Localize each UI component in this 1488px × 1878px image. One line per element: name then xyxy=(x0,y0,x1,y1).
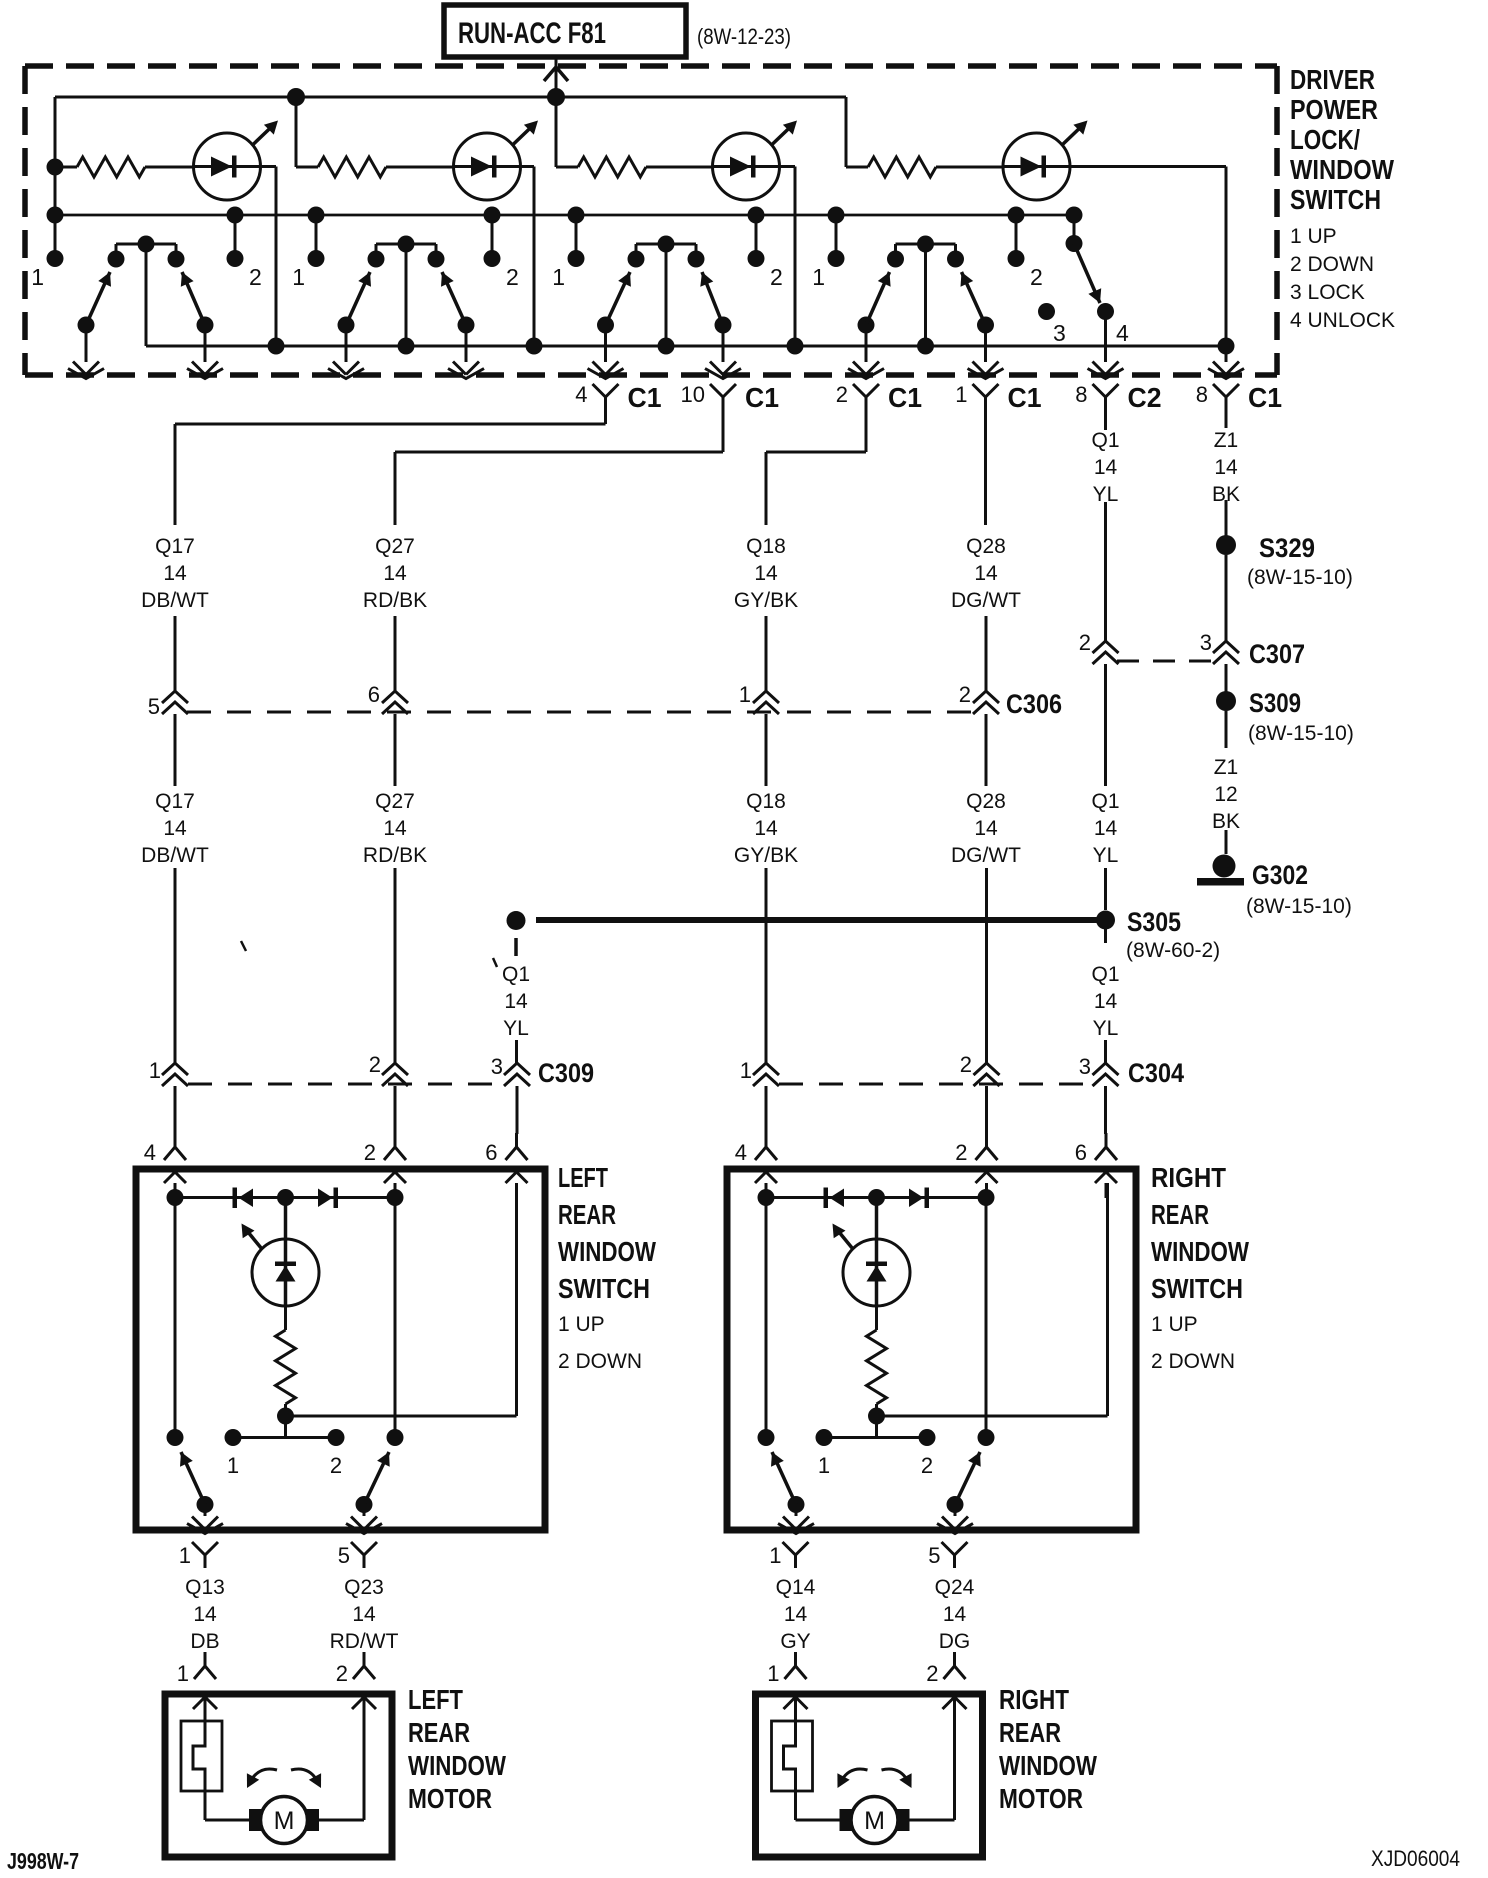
entry arrow pin 2 xyxy=(943,1697,967,1709)
wire section 2 right output xyxy=(448,325,484,379)
svg-text:5: 5 xyxy=(928,1543,940,1568)
wire S329 to C307 xyxy=(1225,555,1228,641)
svg-text:C304: C304 xyxy=(1128,1058,1184,1088)
wire connector C1-4 to Q17 drop xyxy=(175,411,606,525)
label wire Q1 14 YL (S305 left branch) xyxy=(502,963,530,1040)
contact 2 (DOWN) section 4 xyxy=(1008,207,1043,291)
wire section 3 bridge to common rail xyxy=(665,244,668,346)
connector left rear switch pin 1 (below box) xyxy=(179,1542,218,1568)
svg-text:2: 2 xyxy=(836,382,848,407)
wire section 3 left output xyxy=(588,325,624,379)
connector C309 pin 2 xyxy=(369,1052,408,1086)
svg-text:10: 10 xyxy=(681,382,705,407)
label wire Q24 xyxy=(935,1576,975,1653)
svg-text:14: 14 xyxy=(974,562,998,585)
svg-text:2: 2 xyxy=(369,1052,381,1077)
wire Q18 between label and C306 xyxy=(765,616,768,691)
LED DS4 switch illumination xyxy=(1003,121,1088,201)
wire S309 to Z1 12 BK label xyxy=(1225,711,1228,748)
svg-text:MOTOR: MOTOR xyxy=(999,1783,1083,1814)
svg-text:LEFT: LEFT xyxy=(408,1684,463,1715)
node fuse feed / power rail junction xyxy=(547,88,565,106)
svg-text:14: 14 xyxy=(163,817,187,840)
wire into left rear window switch pin 4 xyxy=(174,1086,177,1134)
driver power lock/window switch enclosure (dashed) xyxy=(25,66,1277,375)
svg-text:2: 2 xyxy=(364,1140,376,1165)
LED DS2 switch illumination xyxy=(454,121,539,201)
wire section 3 right output xyxy=(705,325,741,379)
diode D1 (left, cathode bar left) xyxy=(824,1188,845,1209)
wire Z1 output through border xyxy=(1208,346,1244,379)
connector left rear switch pin 5 (below box) xyxy=(338,1542,377,1568)
wire diode rail to LED xyxy=(284,1198,288,1240)
wire arm right output xyxy=(346,1505,382,1534)
svg-text:8: 8 xyxy=(1196,382,1208,407)
svg-text:REAR: REAR xyxy=(558,1199,616,1230)
wire breaker to motor xyxy=(796,1819,851,1822)
svg-text:SWITCH: SWITCH xyxy=(1151,1273,1243,1304)
svg-text:Z1: Z1 xyxy=(1214,429,1239,452)
svg-text:LOCK/: LOCK/ xyxy=(1290,124,1360,155)
lock switch pivot stub xyxy=(1066,207,1083,253)
svg-text:12: 12 xyxy=(1214,783,1237,806)
connector right rear switch pin 5 (below box) xyxy=(928,1542,967,1568)
connector C304 pin 3 xyxy=(1079,1054,1119,1086)
wire resistor R1 to LED xyxy=(145,166,194,169)
contact 2 (DOWN) section 1 xyxy=(227,207,262,291)
wire lock switch output xyxy=(1088,312,1124,379)
switch arm left section 3 xyxy=(597,272,631,334)
node section 2 bridge / common rail xyxy=(398,338,415,355)
svg-text:C1: C1 xyxy=(628,382,662,413)
svg-text:(8W-15-10): (8W-15-10) xyxy=(1246,895,1352,918)
svg-text:YL: YL xyxy=(503,1017,529,1040)
connector C307 mating line (dashed) xyxy=(1117,660,1214,663)
svg-text:1: 1 xyxy=(227,1453,239,1478)
label connector C304 xyxy=(1128,1058,1184,1088)
node LED DS2 return junction xyxy=(526,338,543,355)
svg-text:14: 14 xyxy=(504,990,528,1013)
switch arm left section 4 xyxy=(858,272,891,334)
svg-text:C307: C307 xyxy=(1249,639,1305,669)
wire diode rail xyxy=(167,1189,404,1206)
svg-text:C306: C306 xyxy=(1006,689,1062,719)
wire resistor R2 to LED xyxy=(386,166,454,169)
left rear window motor enclosure xyxy=(165,1694,392,1857)
entry arrow pin 1 xyxy=(784,1697,808,1709)
contact 3 (LOCK) xyxy=(1038,303,1066,346)
wire Q28 below C306 xyxy=(985,714,988,786)
svg-text:6: 6 xyxy=(1075,1140,1087,1165)
wire C307 to splice S309 xyxy=(1225,664,1228,692)
wire resistor to tie point xyxy=(868,1404,885,1425)
wire LED DS3 return to common rail xyxy=(780,167,796,347)
wire section 1 left output xyxy=(68,325,104,379)
label wire Q1 14 YL (S305 right branch) xyxy=(1091,963,1119,1040)
fuse box RUN-ACC F81 xyxy=(444,5,686,57)
diode D1 (left, cathode bar left) xyxy=(233,1188,254,1209)
wire pin 2 drop to contact xyxy=(978,1198,995,1446)
driver switch position legend xyxy=(1290,225,1395,332)
svg-text:14: 14 xyxy=(754,562,778,585)
svg-text:1: 1 xyxy=(177,1661,189,1686)
svg-text:MOTOR: MOTOR xyxy=(408,1783,492,1814)
svg-text:DB/WT: DB/WT xyxy=(141,589,209,612)
wire into left rear window switch pin 6 xyxy=(516,1086,519,1134)
svg-text:Q1: Q1 xyxy=(1091,963,1119,986)
label wire Q18 14 GY/BK (upper) xyxy=(734,535,798,612)
svg-text:Q1: Q1 xyxy=(1091,790,1119,813)
svg-text:2: 2 xyxy=(960,1052,972,1077)
svg-text:Q24: Q24 xyxy=(935,1576,975,1599)
svg-text:14: 14 xyxy=(352,1603,376,1626)
wire LED to resistor xyxy=(284,1306,287,1330)
svg-text:(8W-12-23): (8W-12-23) xyxy=(697,24,791,49)
switch arm right xyxy=(356,1452,390,1513)
svg-text:1: 1 xyxy=(179,1543,191,1568)
svg-text:4: 4 xyxy=(144,1140,156,1165)
wire S305 left branch stub xyxy=(514,938,518,956)
svg-text:DG/WT: DG/WT xyxy=(951,589,1021,612)
svg-text:1: 1 xyxy=(767,1661,779,1686)
splice S305 with heavy bus xyxy=(507,907,1221,962)
svg-text:4: 4 xyxy=(735,1140,747,1165)
wire common return rail (bottom) xyxy=(146,345,1226,348)
svg-text:DG: DG xyxy=(939,1630,971,1653)
ground G302 xyxy=(1197,855,1352,919)
contact 1 (UP) section 3 xyxy=(552,207,584,291)
resistor R4 (illumination) xyxy=(868,157,936,177)
svg-text:2: 2 xyxy=(1079,630,1091,655)
wire pin 4 drop to contact xyxy=(758,1198,775,1446)
svg-text:2: 2 xyxy=(330,1453,342,1478)
svg-text:1: 1 xyxy=(955,382,967,407)
connector C309 pin 1 xyxy=(149,1058,188,1086)
connector left rear switch pin 6 xyxy=(485,1133,527,1198)
LED switch illumination xyxy=(833,1224,911,1307)
connector right rear motor pin 2 xyxy=(926,1652,965,1686)
svg-text:SWITCH: SWITCH xyxy=(558,1273,650,1304)
svg-text:Q23: Q23 xyxy=(344,1576,384,1599)
wire Q18 below C306 xyxy=(765,714,768,786)
wire Q1 left branch to C309 xyxy=(515,1040,518,1063)
bridge bar contacts 1-2 xyxy=(225,1429,345,1478)
right rear window motor enclosure xyxy=(756,1694,983,1857)
svg-text:1: 1 xyxy=(292,264,305,290)
svg-text:Q28: Q28 xyxy=(966,790,1006,813)
wire section 1 right output xyxy=(187,325,223,379)
wire section 2 feed drop xyxy=(296,97,318,167)
label connector C307 xyxy=(1249,639,1305,669)
svg-text:WINDOW: WINDOW xyxy=(999,1750,1097,1781)
svg-text:RD/BK: RD/BK xyxy=(363,844,427,867)
svg-text:DB/WT: DB/WT xyxy=(141,844,209,867)
svg-text:5: 5 xyxy=(148,694,160,719)
wire motor to pin 2 xyxy=(899,1694,955,1820)
svg-text:RD/BK: RD/BK xyxy=(363,589,427,612)
lock switch arm (to 4 UNLOCK) xyxy=(1074,244,1101,304)
svg-text:(8W-15-10): (8W-15-10) xyxy=(1248,722,1354,745)
svg-text:C1: C1 xyxy=(888,382,922,413)
svg-text:RIGHT: RIGHT xyxy=(1151,1162,1226,1193)
wire connector C1-10 to Q27 drop xyxy=(395,411,723,525)
wire section 4 feed drop xyxy=(846,97,868,167)
motor M xyxy=(249,1797,319,1844)
svg-text:GY/BK: GY/BK xyxy=(734,589,798,612)
wire tie point to bridge bar xyxy=(875,1416,878,1438)
svg-text:6: 6 xyxy=(485,1140,497,1165)
wire tie point to pin 6 drop xyxy=(877,1183,1108,1416)
circuit breaker xyxy=(772,1694,813,1820)
footnote XJD06004 xyxy=(1371,1846,1460,1871)
wire pin 2 drop to contact xyxy=(387,1198,404,1446)
wire section 3 feed drop xyxy=(556,97,578,167)
svg-text:1 UP: 1 UP xyxy=(558,1313,605,1336)
resistor R1 (illumination) xyxy=(77,157,145,177)
svg-text:1: 1 xyxy=(818,1453,830,1478)
wire S305 right branch stub xyxy=(1104,929,1107,943)
svg-text:14: 14 xyxy=(943,1603,967,1626)
wire power rail (top) xyxy=(55,96,846,99)
LED switch illumination xyxy=(242,1224,320,1307)
wire resistor R3 to LED xyxy=(646,166,713,169)
wire LED to resistor xyxy=(875,1306,878,1330)
node section 3 bridge / common rail xyxy=(658,338,675,355)
connector C306 pin 6 xyxy=(368,682,408,714)
label wire Q18 14 GY/BK (lower) xyxy=(734,790,798,867)
wire into left rear window switch pin 2 xyxy=(394,1086,397,1134)
connector C307 pin 3 xyxy=(1200,630,1239,664)
svg-text:Q1: Q1 xyxy=(502,963,530,986)
svg-text:DG/WT: DG/WT xyxy=(951,844,1021,867)
footnote J998W-7 xyxy=(7,1848,79,1874)
connector C309 pin 3 xyxy=(491,1054,530,1086)
wire LED DS4 return to Z1 drop xyxy=(1070,167,1226,347)
svg-text:14: 14 xyxy=(784,1603,808,1626)
svg-text:RD/WT: RD/WT xyxy=(330,1630,399,1653)
wire into right rear window switch pin 6 xyxy=(1104,1086,1107,1134)
label connector C309 xyxy=(538,1058,594,1088)
contact 2 (DOWN) section 3 xyxy=(748,207,783,291)
svg-text:WINDOW: WINDOW xyxy=(1290,154,1394,185)
svg-text:C2: C2 xyxy=(1128,382,1162,413)
contact 1 (UP) section 2 xyxy=(292,207,324,291)
svg-text:Q13: Q13 xyxy=(185,1576,225,1599)
svg-text:Q14: Q14 xyxy=(776,1576,816,1599)
wire resistor to tie point xyxy=(277,1404,294,1425)
svg-text:2 DOWN: 2 DOWN xyxy=(558,1350,642,1373)
svg-text:14: 14 xyxy=(193,1603,217,1626)
svg-text:2: 2 xyxy=(921,1453,933,1478)
svg-text:14: 14 xyxy=(1094,817,1118,840)
svg-text:POWER: POWER xyxy=(1290,94,1378,125)
wire Q24 to motor pin 2 xyxy=(953,1652,956,1666)
svg-text:3: 3 xyxy=(1053,320,1066,346)
label wire Q17 14 DB/WT (upper) xyxy=(141,535,209,612)
connector C1 pin 8 (driver switch) xyxy=(1196,382,1282,413)
resistor (illumination) xyxy=(867,1330,887,1404)
svg-text:2 DOWN: 2 DOWN xyxy=(1290,253,1374,276)
node LED DS3 return junction xyxy=(787,338,804,355)
svg-text:2: 2 xyxy=(1030,264,1043,290)
svg-text:XJD06004: XJD06004 xyxy=(1371,1846,1460,1871)
circuit breaker xyxy=(181,1694,222,1820)
wire Z1 to splice S329 xyxy=(1225,500,1228,536)
svg-text:DRIVER: DRIVER xyxy=(1290,64,1375,95)
fuse reference (8W-12-23) xyxy=(697,24,791,49)
label wire Q27 14 RD/BK (lower) xyxy=(363,790,427,867)
label wire Z1 14 BK xyxy=(1212,429,1240,506)
svg-text:1: 1 xyxy=(31,264,44,290)
svg-text:14: 14 xyxy=(163,562,187,585)
resistor R2 (illumination) xyxy=(318,157,386,177)
wire Q1 label to splice S305 xyxy=(1104,868,1107,910)
svg-text:Q17: Q17 xyxy=(155,790,195,813)
label wire Z1 12 BK xyxy=(1212,756,1240,833)
svg-text:(8W-15-10): (8W-15-10) xyxy=(1247,566,1353,589)
svg-text:8: 8 xyxy=(1075,382,1087,407)
connector C2 pin 8 (driver switch) xyxy=(1075,382,1161,413)
connector C306 pin 5 xyxy=(148,691,188,719)
wire contact feed rail (middle) xyxy=(55,214,1074,217)
wire section 1 bridge to common rail xyxy=(145,244,148,346)
svg-text:GY: GY xyxy=(780,1630,810,1653)
switch arm left xyxy=(180,1452,214,1513)
contact 1 (UP) section 4 xyxy=(812,207,844,291)
svg-text:Q17: Q17 xyxy=(155,535,195,558)
LED DS3 switch illumination xyxy=(713,121,798,201)
svg-text:3: 3 xyxy=(491,1054,503,1079)
connector C304 pin 2 xyxy=(960,1052,1000,1086)
svg-text:2: 2 xyxy=(770,264,783,290)
svg-text:1: 1 xyxy=(740,1058,752,1083)
svg-text:2: 2 xyxy=(959,682,971,707)
wire LED DS2 return to common rail xyxy=(521,167,535,347)
left rear window switch enclosure xyxy=(136,1169,545,1530)
svg-text:GY/BK: GY/BK xyxy=(734,844,798,867)
svg-text:5: 5 xyxy=(338,1543,350,1568)
contact 2 (DOWN) section 2 xyxy=(484,207,519,291)
svg-text:1: 1 xyxy=(552,264,565,290)
svg-text:1: 1 xyxy=(149,1058,161,1083)
connector C1 pin 1 (driver switch) xyxy=(955,382,1041,413)
wire Q1 right branch to C304 xyxy=(1104,1040,1107,1063)
label wire Q1 14 YL (middle) xyxy=(1091,790,1119,867)
switch arm right section 2 xyxy=(441,272,475,334)
splice S309 xyxy=(1216,688,1354,745)
connector C307 pin 2 xyxy=(1079,630,1119,664)
svg-text:C1: C1 xyxy=(1248,382,1282,413)
motor M xyxy=(840,1797,910,1844)
right rear window switch enclosure xyxy=(727,1169,1136,1530)
svg-text:1 UP: 1 UP xyxy=(1151,1313,1198,1336)
svg-text:M: M xyxy=(864,1807,885,1835)
svg-text:Z1: Z1 xyxy=(1214,756,1239,779)
svg-text:14: 14 xyxy=(974,817,998,840)
resistor R3 (illumination) xyxy=(578,157,646,177)
wire pin 4 drop to contact xyxy=(167,1198,184,1446)
left rear window motor label xyxy=(408,1684,506,1814)
wire Q23 to motor pin 2 xyxy=(363,1652,366,1666)
connector C1 pin 2 (driver switch) xyxy=(836,382,922,413)
right rear window switch label xyxy=(1151,1162,1249,1373)
connector C306 pin 1 xyxy=(739,682,779,714)
wire connector C1-8 down (Z1) xyxy=(1225,411,1228,428)
wire connector C2-8 down (Q1) xyxy=(1104,411,1107,430)
entry arrow pin 2 xyxy=(352,1697,376,1709)
svg-text:4: 4 xyxy=(575,382,587,407)
wire tie point to pin 6 drop xyxy=(286,1183,517,1416)
svg-text:REAR: REAR xyxy=(999,1717,1061,1748)
wire connector C1-2 to Q18 drop xyxy=(766,411,866,525)
svg-text:1: 1 xyxy=(739,682,751,707)
switch bridge bar section 4 xyxy=(887,236,964,268)
svg-text:YL: YL xyxy=(1093,1017,1119,1040)
connector left rear motor pin 2 xyxy=(336,1652,375,1686)
connector C309 mating line (dashed) xyxy=(188,1083,504,1086)
label wire Q13 xyxy=(185,1576,225,1653)
svg-text:REAR: REAR xyxy=(408,1717,470,1748)
wire Q1 between label and C307 xyxy=(1104,502,1107,641)
node section 4 bridge / common rail xyxy=(917,338,934,355)
svg-text:DB: DB xyxy=(190,1630,219,1653)
svg-text:WINDOW: WINDOW xyxy=(1151,1236,1249,1267)
connector C1 pin 4 (driver switch) xyxy=(575,382,661,413)
svg-text:LEFT: LEFT xyxy=(558,1162,608,1193)
connector left rear motor pin 1 xyxy=(177,1652,216,1686)
wire Z1 to ground G302 xyxy=(1225,830,1228,854)
resistor (illumination) xyxy=(276,1330,296,1404)
connector C1 pin 10 (driver switch) xyxy=(681,382,779,413)
wire Q28 between label and C306 xyxy=(985,616,988,691)
svg-text:14: 14 xyxy=(1094,456,1118,479)
svg-text:1: 1 xyxy=(812,264,825,290)
svg-text:2: 2 xyxy=(249,264,262,290)
svg-text:6: 6 xyxy=(368,682,380,707)
wire resistor R4 to LED xyxy=(936,166,1003,169)
connector right rear switch pin 1 (below box) xyxy=(769,1542,808,1568)
label wire Q27 14 RD/BK (upper) xyxy=(363,535,427,612)
switch bridge bar section 2 xyxy=(368,236,445,268)
wire arm left output xyxy=(778,1505,814,1534)
label wire Q14 xyxy=(776,1576,816,1653)
switch arm right section 4 xyxy=(961,272,995,334)
svg-text:14: 14 xyxy=(383,562,407,585)
driver switch name label xyxy=(1290,64,1394,215)
label wire Q28 14 DG/WT (upper) xyxy=(951,535,1021,612)
rotation arrows xyxy=(837,1769,911,1788)
svg-text:14: 14 xyxy=(754,817,778,840)
wire Q14 to motor pin 1 xyxy=(794,1652,797,1666)
svg-text:Q27: Q27 xyxy=(375,790,415,813)
wire arm right output xyxy=(937,1505,973,1534)
node Z1 drop / common rail junction xyxy=(1218,338,1235,355)
wire section 4 right output xyxy=(968,325,1004,379)
wire into right rear window switch pin 2 xyxy=(985,1086,988,1134)
svg-text:2: 2 xyxy=(506,264,519,290)
switch arm right xyxy=(947,1452,981,1513)
LED DS1 switch illumination xyxy=(194,121,279,201)
svg-text:S309: S309 xyxy=(1249,688,1301,718)
svg-text:REAR: REAR xyxy=(1151,1199,1209,1230)
wire Q17 to C309 xyxy=(174,868,177,1063)
wire into right rear window switch pin 4 xyxy=(765,1086,768,1134)
svg-text:14: 14 xyxy=(1094,990,1118,1013)
svg-text:G302: G302 xyxy=(1252,860,1308,890)
switch arm left section 1 xyxy=(78,272,112,334)
wire tie point to bridge bar xyxy=(284,1416,287,1438)
svg-text:RIGHT: RIGHT xyxy=(999,1684,1069,1715)
